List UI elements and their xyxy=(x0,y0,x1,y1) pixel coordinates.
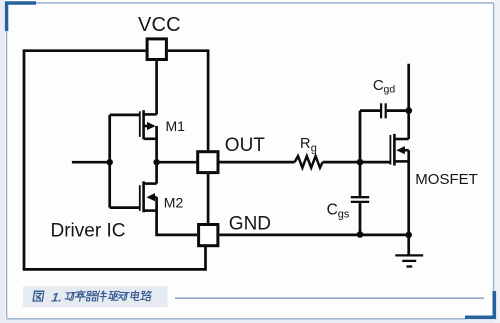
transistor M1 (upper, arrow right) xyxy=(140,110,157,139)
svg-text:1.: 1. xyxy=(51,291,63,305)
wire: Cgs bottom to GND rail xyxy=(359,203,362,235)
wire: M2 gate wire xyxy=(110,206,140,209)
power MOSFET symbol (arrow left) xyxy=(390,134,408,166)
svg-text:g: g xyxy=(311,142,317,154)
svg-text:M2: M2 xyxy=(164,195,184,211)
ground symbol xyxy=(395,255,423,266)
capacitor Cgd plates xyxy=(381,103,386,118)
left margin strip xyxy=(0,0,5,323)
svg-text:GND: GND xyxy=(229,213,271,234)
glyph 率 xyxy=(75,291,87,302)
VCC pad square xyxy=(147,39,166,60)
glyph 功 xyxy=(65,293,76,301)
wire: OUT pad to Rg xyxy=(219,161,294,164)
bottom margin strip xyxy=(0,320,500,323)
caption rule line xyxy=(175,297,484,299)
glyph 电 xyxy=(131,291,141,301)
svg-text:OUT: OUT xyxy=(225,135,265,156)
wire: driver box top edge (VCC rail left) xyxy=(24,49,146,52)
wire: Cgd-Cgs vertical through Rg node xyxy=(359,111,362,197)
glyph 驱 xyxy=(108,291,119,300)
wire: M1 gate wire xyxy=(110,114,140,117)
glyph 路 xyxy=(140,291,151,301)
wire: MOSFET drain vertical xyxy=(407,64,410,139)
svg-text:Driver IC: Driver IC xyxy=(51,220,126,241)
transistor M2 (lower, arrow left) xyxy=(140,181,157,212)
svg-text:gd: gd xyxy=(384,83,396,95)
wire: OUT pad to GND pad vertical xyxy=(207,174,210,223)
svg-text:C: C xyxy=(373,77,384,94)
svg-text:VCC: VCC xyxy=(138,14,181,36)
svg-text:MOSFET: MOSFET xyxy=(415,171,478,188)
node junction dot Rg/Cgs xyxy=(357,159,364,166)
wire: M2 source down and to GND pad xyxy=(157,197,197,235)
capacitor Cgs plates xyxy=(351,197,369,202)
wire: driver box bottom edge to GND pad xyxy=(23,247,206,269)
svg-text:gs: gs xyxy=(338,208,350,220)
wire: M1 drain to VCC pad xyxy=(155,61,158,114)
text 1. xyxy=(51,291,63,305)
glyph 动 xyxy=(118,292,129,300)
wire: GND rail right xyxy=(219,234,408,237)
wire: Rg to MOSFET gate xyxy=(323,161,390,164)
caption text: 图 1. 功率器件驱动电路 (drawn as vector strokes) xyxy=(33,291,151,305)
node junction dot Cgs/GND rail xyxy=(357,231,364,238)
right margin strip xyxy=(495,0,500,323)
dark blue corner accent bottom-right xyxy=(465,291,494,317)
wire: gate input stub xyxy=(72,161,110,164)
svg-text:C: C xyxy=(327,202,338,219)
node junction dot Cgd/drain xyxy=(405,107,412,114)
wire: M1 source / M2 drain vertical xyxy=(155,126,158,184)
node junction dot MOSFET source/GND rail xyxy=(405,232,412,239)
wire: Cgd left lead xyxy=(360,109,380,112)
svg-text:R: R xyxy=(300,136,310,152)
svg-text:M1: M1 xyxy=(166,118,186,134)
GND pad square xyxy=(199,225,218,246)
resistor Rg zigzag xyxy=(295,156,323,168)
dark blue corner accent top-left xyxy=(7,3,36,31)
glyph 图 xyxy=(33,291,44,301)
wire: driver box left edge xyxy=(23,49,26,269)
wire: MOSFET source vertical to ground xyxy=(407,150,410,255)
wire: node OUT to pad xyxy=(157,161,197,164)
caption background box xyxy=(23,286,168,307)
OUT pad square xyxy=(198,152,218,173)
wire: VCC pad to OUT pad (right vertical) xyxy=(168,51,208,151)
wire: gate bus vertical xyxy=(108,115,111,208)
node junction dot M1/M2 output xyxy=(153,159,159,165)
glyph 器 xyxy=(86,291,97,300)
node junction dot gate bus xyxy=(107,159,113,165)
glyph 件 xyxy=(97,291,108,301)
wire: Cgd right lead xyxy=(387,109,409,112)
